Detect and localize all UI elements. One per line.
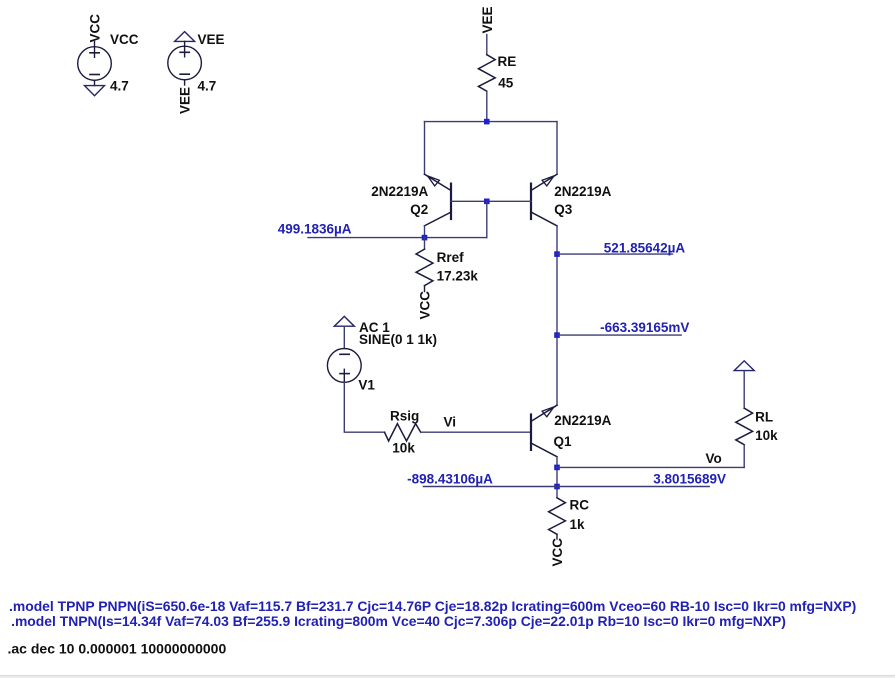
svg-text:10k: 10k <box>755 428 778 443</box>
svg-text:3.8015689V: 3.8015689V <box>653 471 726 486</box>
svg-text:Rref: Rref <box>437 250 465 265</box>
junction: RE bottom / emitter rail <box>484 119 490 125</box>
svg-text:499.1836µA: 499.1836µA <box>278 222 352 237</box>
resistor Rref <box>416 238 478 320</box>
svg-text:1k: 1k <box>570 517 586 532</box>
voltage source VEE <box>168 32 225 114</box>
wire annotation stub 1 <box>557 253 673 255</box>
transistor Q2 (pnp, mirrored) <box>425 174 452 226</box>
svg-text:VCC: VCC <box>550 538 565 567</box>
wire base column down <box>486 201 488 237</box>
transistor Q1 (pnp) <box>531 405 557 457</box>
svg-text:4.7: 4.7 <box>110 79 129 94</box>
svg-text:4.7: 4.7 <box>198 79 217 94</box>
resistor RL <box>734 361 778 468</box>
wire annotation stub 3 <box>423 486 709 488</box>
junction: Vo node <box>554 465 560 471</box>
wire node1 horizontal <box>308 237 487 239</box>
wire <box>424 238 426 250</box>
svg-text:VEE: VEE <box>178 87 193 114</box>
wire <box>486 91 488 121</box>
wire left emitter drop <box>424 122 426 175</box>
ground <box>85 86 105 96</box>
svg-text:V1: V1 <box>358 378 375 393</box>
wire V1 to Rsig <box>344 382 384 432</box>
svg-text:VEE: VEE <box>198 32 225 47</box>
transistor Q3 (pnp) <box>531 174 557 226</box>
svg-text:VCC: VCC <box>418 291 433 320</box>
svg-text:45: 45 <box>498 76 514 91</box>
svg-text:.ac dec 10 0.000001 1000000000: .ac dec 10 0.000001 10000000000 <box>8 640 227 656</box>
svg-text:.model TPNP PNPN(iS=650.6e-18: .model TPNP PNPN(iS=650.6e-18 Vaf=115.7 … <box>9 598 856 614</box>
resistor RC <box>549 498 590 567</box>
svg-text:Q2: Q2 <box>410 202 428 217</box>
wire <box>486 35 488 55</box>
junction: -663.39165mV probe point <box>554 332 560 338</box>
wire <box>743 445 745 468</box>
wire <box>424 286 426 292</box>
svg-text:Q3: Q3 <box>554 202 573 217</box>
resistor RE <box>478 6 516 121</box>
wire top rail <box>425 121 558 123</box>
junction: Rref top / Q2 collector node <box>422 235 428 241</box>
svg-text:Vi: Vi <box>444 414 457 429</box>
svg-text:.model TNPN(Is=14.34f Vaf=74.0: .model TNPN(Is=14.34f Vaf=74.03 Bf=255.9… <box>11 613 786 629</box>
svg-text:-663.39165mV: -663.39165mV <box>600 320 689 335</box>
svg-text:RC: RC <box>570 498 590 513</box>
svg-text:Rsig: Rsig <box>390 408 419 423</box>
svg-text:10k: 10k <box>392 441 415 456</box>
wire junction to Q3 base <box>487 200 531 202</box>
svg-text:Q1: Q1 <box>554 434 573 449</box>
wire Q2 collector stub <box>424 226 426 238</box>
wire right column <box>556 226 558 405</box>
wire <box>94 42 96 58</box>
power flag <box>334 316 354 326</box>
wire <box>556 534 558 539</box>
svg-text:VCC: VCC <box>88 14 103 43</box>
bottom window border <box>0 675 895 678</box>
svg-text:-898.43106µA: -898.43106µA <box>407 471 493 486</box>
svg-text:17.23k: 17.23k <box>437 269 479 284</box>
power flag <box>734 361 754 371</box>
svg-text:VEE: VEE <box>480 6 495 33</box>
svg-text:2N2219A: 2N2219A <box>554 413 611 428</box>
voltage source V1 <box>327 316 437 392</box>
wire Q1 collector down <box>556 457 558 498</box>
wire right emitter drop <box>556 122 558 175</box>
wire Q2 base to junction <box>451 200 487 202</box>
svg-text:SINE(0 1 1k): SINE(0 1 1k) <box>359 332 437 347</box>
svg-text:RE: RE <box>498 54 517 69</box>
wire Vo <box>557 466 744 468</box>
svg-text:521.85642µA: 521.85642µA <box>604 240 686 255</box>
wire Rsig to Q1 base <box>421 431 531 433</box>
resistor Rsig <box>385 408 421 455</box>
svg-text:VCC: VCC <box>110 32 139 47</box>
junction: Q2-Q3 base tie <box>484 199 490 205</box>
power flag VEE <box>175 32 195 42</box>
svg-text:2N2219A: 2N2219A <box>554 184 611 199</box>
junction: 521.85642uA probe point <box>554 251 560 257</box>
svg-text:2N2219A: 2N2219A <box>371 184 428 199</box>
wire annotation stub 2 <box>557 334 681 336</box>
svg-text:RL: RL <box>755 410 773 425</box>
svg-text:Vo: Vo <box>706 451 722 466</box>
junction: 3.8015689V probe point <box>554 484 560 490</box>
voltage source VCC <box>78 14 139 96</box>
